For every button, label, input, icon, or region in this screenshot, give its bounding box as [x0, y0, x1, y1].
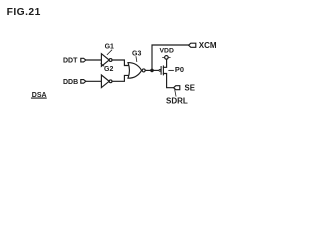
leader G1	[107, 50, 112, 55]
terminal DDB	[81, 80, 86, 84]
wire G1 out to G3 upper input	[112, 60, 130, 66]
wire P0 drain down	[163, 74, 174, 88]
underline DSA	[32, 97, 47, 99]
terminal SE	[174, 86, 180, 90]
wire DDB to G2 input	[86, 80, 102, 82]
svg-text:G2: G2	[104, 66, 113, 73]
svg-text:SE: SE	[185, 84, 195, 93]
wire G2 out to G3 lower input	[112, 75, 130, 81]
svg-text:SDRL: SDRL	[166, 96, 188, 105]
inverter G1	[101, 54, 109, 67]
svg-text:XCM: XCM	[199, 41, 217, 50]
svg-text:G3: G3	[132, 50, 141, 57]
svg-text:FIG.21: FIG.21	[7, 7, 41, 18]
NOR gate G3	[128, 63, 142, 79]
svg-text:P0: P0	[175, 65, 184, 74]
terminal DDT	[81, 58, 86, 62]
leader SDRL	[175, 90, 176, 97]
svg-text:VDD: VDD	[160, 47, 174, 54]
terminal XCM	[189, 43, 196, 47]
wire G3 output to P0 gate	[145, 69, 159, 71]
svg-text:DDT: DDT	[63, 58, 78, 65]
svg-text:DDB: DDB	[63, 79, 78, 86]
power VDD symbol	[165, 56, 169, 60]
leader G3	[135, 57, 138, 62]
svg-text:G1: G1	[105, 43, 114, 50]
wire node up to XCM line	[152, 45, 189, 70]
label P0	[169, 69, 174, 71]
inverter G2	[101, 75, 109, 88]
leader G2	[101, 64, 104, 67]
wire VDD to P0 source	[163, 59, 166, 67]
transistor P0	[159, 70, 161, 72]
node junction dot	[150, 69, 154, 73]
wire DDT to G1 input	[86, 59, 102, 61]
